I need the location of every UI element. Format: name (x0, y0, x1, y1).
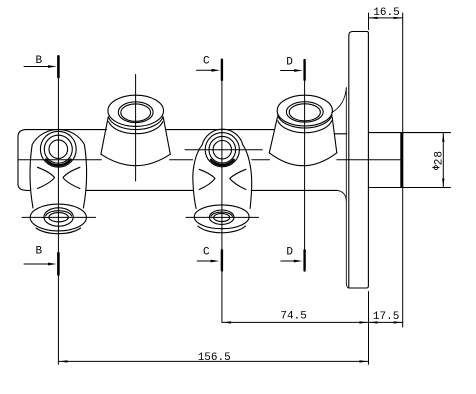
lug 1 foot boss ring (44, 208, 73, 226)
cylinder axis line (18, 159, 400, 161)
reservoir boss 1 outer rim ellipse (108, 95, 164, 126)
section line B-B thin (57, 77, 59, 365)
lug 1 eye middle circle (44, 135, 72, 163)
body bottom edge (26, 189, 337, 191)
boss 2 right slant (332, 117, 337, 153)
lug 2 foot boss chamfer arc (211, 212, 233, 216)
boss 2 hole inner ellipse (289, 104, 320, 121)
spigot bottom edge with extension to dimension (368, 187, 450, 189)
svg-text:28: 28 (433, 150, 445, 165)
boss 1 collar base arc (109, 122, 163, 134)
mounting flange plate (349, 32, 369, 289)
lug 2 eye centerline (185, 149, 262, 151)
body top edge (25, 129, 274, 131)
lug 1 foot pad thickness arc (36, 228, 81, 234)
section line D-D thin (304, 80, 306, 251)
dimension 16.5 arrows (369, 17, 378, 19)
boss 1 hole outer ellipse (118, 102, 153, 123)
spigot end thick black bar (400, 132, 403, 188)
section line C thick bar top (221, 60, 223, 80)
section arrow C top (197, 69, 214, 71)
svg-text:D: D (286, 57, 293, 69)
lug 2 foot boss ring (209, 210, 234, 224)
boss 2 hole outer ellipse (286, 102, 323, 122)
mounting lug 2 outline (193, 129, 252, 208)
mounting lug 1 outline (30, 129, 87, 208)
lug 1 foot boss chamfer arc (46, 211, 72, 216)
dimension 16.5 line (369, 17, 403, 19)
lug 1 eye thick bottom arc (46, 160, 71, 166)
lug 2 left fillet chevron (199, 169, 215, 189)
dimension extension line right x=402.7 (402, 13, 404, 327)
dimension line 156.5 (58, 360, 368, 362)
flange face rib edge (332, 88, 349, 289)
bottom dimension line 74.5 / 17.5 (222, 321, 403, 323)
lug 2 eye outer circle (205, 133, 239, 167)
section line B thick bar top (57, 56, 60, 77)
boss 1 centerline (135, 75, 137, 182)
section line D thick bar bottom (303, 250, 305, 270)
section arrow B top (24, 66, 50, 68)
boss 1 neck base arc (108, 117, 163, 130)
lug 2 foot hole ellipse (214, 213, 230, 221)
boss 2 neck base arc (278, 115, 332, 128)
svg-text:17.5: 17.5 (373, 311, 399, 323)
spigot top edge with extension to dimension (368, 132, 450, 134)
phi symbol of diameter 28 (434, 166, 438, 170)
section line C thick bar bottom (221, 250, 223, 270)
diameter 28 dimension line (442, 133, 444, 188)
body top edge right segment (334, 133, 347, 135)
body-to-flange bottom fillet (337, 190, 346, 200)
lug 2 foot pad outer ellipse (194, 205, 249, 229)
arrows of 156.5 (59, 360, 68, 362)
lug 1 foot pad outer ellipse (30, 204, 86, 231)
lug 1 eye inner circle (49, 140, 68, 159)
boss 1 left slant (101, 118, 108, 155)
lug 1 foot pad centerline (22, 216, 96, 218)
section arrow B bottom (24, 263, 50, 265)
body left end cap (18, 130, 26, 191)
svg-text:C: C (203, 247, 210, 259)
arrows of 74.5 (222, 321, 231, 323)
flange extension line bottom (368, 292, 370, 365)
boss 1 right slant (163, 118, 170, 155)
arrows of 17.5 (369, 321, 378, 323)
lug 1 eye outer circle (40, 131, 76, 167)
boss 2 left slant (269, 117, 277, 153)
lug 2 right fillet chevron (230, 169, 246, 189)
svg-text:D: D (286, 247, 293, 259)
lug 2 eye thick bottom arc (211, 160, 234, 165)
lug 1 left fillet chevron (38, 167, 55, 188)
section line B thick bar bottom (57, 253, 60, 274)
svg-text:16.5: 16.5 (373, 7, 399, 19)
lug 2 foot pad thickness arc (198, 226, 246, 233)
dimension 16.5 extension line left (368, 13, 370, 30)
svg-text:B: B (35, 245, 42, 257)
boss 1 base fillet arc (101, 154, 170, 166)
section line C-C thin (221, 80, 223, 323)
boss 1 hole inner ellipse (121, 104, 151, 121)
svg-text:156.5: 156.5 (198, 352, 231, 364)
lug 1 foot hole ellipse (49, 213, 68, 222)
boss 2 base fillet arc (269, 153, 337, 166)
lug 2 eye middle circle (209, 136, 236, 163)
lug 2 foot pad centerline (186, 216, 259, 218)
svg-text:74.5: 74.5 (280, 311, 306, 323)
lug 1 right fillet chevron (63, 167, 80, 188)
section arrow C bottom (197, 260, 212, 262)
svg-text:C: C (203, 56, 210, 68)
section arrow D top (281, 70, 296, 72)
svg-text:B: B (35, 55, 42, 67)
section arrow D bottom (281, 260, 296, 262)
boss 2 collar base arc (278, 121, 332, 133)
diameter 28 arrows (442, 133, 444, 142)
reservoir boss 2 outer rim ellipse (277, 95, 332, 126)
section line D thick bar top (303, 60, 305, 80)
lug 2 eye inner circle (213, 141, 231, 159)
